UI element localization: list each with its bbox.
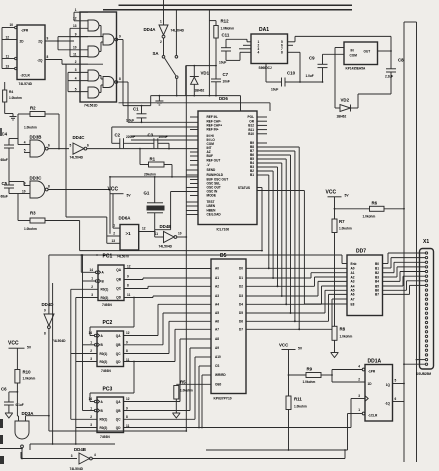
resistor R2 (18, 106, 60, 150)
svg-text:BUF: BUF (207, 154, 214, 158)
svg-text:R0(1): R0(1) (101, 288, 109, 292)
svg-text:9: 9 (47, 37, 49, 41)
AND gate DD5.4 (88, 87, 99, 98)
wire bottom rail to DD4B (21, 452, 77, 459)
svg-text:QC: QC (116, 352, 121, 356)
svg-text:QA: QA (116, 334, 121, 338)
svg-text:-2PR: -2PR (21, 29, 29, 33)
wire DD3A right input feedback (26, 415, 49, 417)
svg-text:REF IN-: REF IN- (207, 115, 218, 119)
svg-text:R6: R6 (372, 201, 378, 206)
svg-text:A2: A2 (215, 285, 219, 289)
svg-text:12: 12 (73, 17, 77, 21)
svg-text:QC: QC (116, 418, 121, 422)
wire ICL data fan B7 to D6 (257, 151, 296, 322)
svg-text:8: 8 (47, 55, 49, 59)
wire D5 data D6 to DD7 (246, 294, 347, 322)
svg-text:74L504D: 74L504D (159, 245, 173, 249)
svg-text:8: 8 (127, 284, 129, 288)
svg-text:KP637PY10: KP637PY10 (214, 397, 232, 401)
capacitor C11 (219, 33, 251, 65)
svg-text:-1Q: -1Q (385, 402, 391, 406)
svg-text:D1: D1 (239, 276, 243, 280)
svg-text:4: 4 (24, 140, 26, 144)
wire PC1 QD to D5 A3 and cascade (90, 296, 211, 336)
svg-text:9: 9 (75, 32, 77, 36)
svg-text:R10: R10 (23, 370, 32, 375)
svg-text:DD3C: DD3C (30, 176, 43, 181)
svg-text:R4: R4 (9, 90, 13, 94)
inverter DD4C (70, 135, 90, 160)
svg-text:D4: D4 (239, 303, 243, 307)
power VCC bottom left (8, 341, 32, 370)
inverter DD4E (155, 224, 188, 249)
wire gate input stubs with pin numbers (62, 8, 103, 92)
svg-text:COM: COM (350, 54, 358, 58)
svg-text:B1: B1 (250, 173, 254, 177)
svg-text:4: 4 (75, 76, 77, 80)
svg-text:1.0kohm: 1.0kohm (340, 335, 353, 339)
svg-text:1: 1 (160, 20, 162, 24)
power VCC right (326, 190, 350, 220)
svg-text:SEND: SEND (207, 168, 216, 172)
svg-text:A9: A9 (215, 346, 219, 350)
svg-text:1: 1 (90, 406, 92, 410)
svg-text:C11: C11 (222, 33, 230, 38)
svg-text:QC: QC (116, 287, 121, 291)
svg-text:PC2: PC2 (103, 320, 113, 326)
svg-text:C9: C9 (309, 56, 315, 61)
wire IN LO (131, 139, 198, 141)
svg-text:3: 3 (75, 68, 77, 72)
svg-text:R1: R1 (150, 157, 156, 162)
svg-text:B7: B7 (375, 293, 379, 297)
svg-text:C2: C2 (115, 133, 121, 138)
svg-text:8: 8 (119, 77, 121, 81)
inverter DD4D (42, 255, 67, 431)
svg-text:A0: A0 (351, 266, 355, 270)
resistor R11 (286, 396, 307, 451)
svg-text:10: 10 (10, 23, 14, 27)
inverter DD4A (144, 0, 185, 44)
resistor R8 (332, 326, 352, 352)
resistor R3 (18, 194, 80, 251)
svg-text:11: 11 (155, 232, 159, 236)
svg-text:R8: R8 (340, 327, 346, 332)
svg-text:D0: D0 (239, 267, 243, 271)
wire PC1 QB to D5 A1 (124, 278, 211, 280)
wire gate output 8 (118, 77, 128, 122)
svg-text:C4: C4 (2, 132, 8, 137)
wire D5 data D5 to DD7 (246, 290, 347, 314)
wire rail 255 to DD7 enable (49, 254, 347, 263)
svg-text:A0: A0 (215, 267, 219, 271)
wire bottom rail R11 (206, 414, 362, 451)
svg-text:4: 4 (94, 453, 96, 457)
svg-text:11: 11 (73, 52, 77, 56)
wire DD3A output left branch (0, 448, 23, 450)
svg-text:R11: R11 (294, 397, 302, 402)
svg-text:C10: C10 (287, 71, 296, 76)
wire PC2 QB to D5 A5 (124, 313, 212, 345)
switch SA (153, 10, 179, 96)
svg-text:1.0kohm: 1.0kohm (294, 405, 307, 409)
svg-text:DD4C: DD4C (73, 135, 86, 140)
wire D5 CS (198, 366, 211, 428)
svg-text:74L561D: 74L561D (84, 104, 98, 108)
svg-text:11: 11 (127, 293, 131, 297)
svg-text:A5: A5 (215, 311, 219, 315)
wire mid bus DD6 supply (151, 95, 241, 111)
svg-text:C1: C1 (133, 107, 139, 112)
svg-text:E8: E8 (351, 302, 355, 306)
resistor R9 (289, 367, 333, 385)
svg-text:3: 3 (90, 423, 92, 427)
svg-text:D2: D2 (239, 285, 243, 289)
flip-flop DD2 74LS74 (6, 23, 49, 86)
capacitor C9 (306, 54, 345, 83)
svg-text:DSUB25M: DSUB25M (416, 372, 431, 376)
svg-text:DA1: DA1 (259, 27, 269, 33)
svg-text:C6: C6 (1, 387, 7, 392)
capacitor C7 (211, 66, 230, 96)
svg-text:A6: A6 (351, 293, 355, 297)
svg-text:-1PR: -1PR (368, 370, 376, 374)
svg-text:DD1A: DD1A (368, 359, 382, 365)
svg-text:1Q: 1Q (386, 383, 391, 387)
svg-text:C7: C7 (223, 72, 229, 77)
svg-text:PC3: PC3 (103, 387, 113, 393)
svg-text:D6: D6 (239, 320, 243, 324)
svg-text:1.0kohm: 1.0kohm (24, 126, 37, 130)
svg-text:74L504D: 74L504D (70, 156, 84, 160)
OR gate DD5.6 (103, 77, 118, 88)
svg-text:R0(2): R0(2) (101, 296, 109, 300)
svg-text:C8: C8 (398, 58, 404, 63)
svg-text:D7: D7 (239, 328, 243, 332)
wire DD7 B1 to X1 (383, 258, 426, 268)
wire D5 data D0 to DD7 (246, 267, 347, 269)
svg-text:8: 8 (281, 51, 283, 55)
wire RUN rail (110, 176, 198, 178)
svg-text:A7: A7 (351, 297, 355, 301)
voltage regulator DA2 KP1435EH5A (344, 42, 378, 71)
svg-text:2: 2 (113, 232, 115, 236)
svg-text:A1: A1 (215, 276, 219, 280)
svg-text:QB: QB (116, 277, 121, 281)
svg-text:5: 5 (75, 87, 77, 91)
svg-text:8: 8 (48, 185, 50, 189)
ADC chip DD6 ICL7106 (198, 111, 257, 232)
svg-text:8: 8 (126, 349, 128, 353)
wire PC3 QD long rail to DD1A clock (124, 399, 366, 428)
svg-text:1: 1 (358, 408, 360, 412)
wire regulator input (335, 48, 344, 109)
OR gate DD5.5 (103, 34, 118, 45)
wire DD7 B7 to X1 (383, 285, 426, 294)
power VCC bottom right (279, 343, 303, 397)
resistor R6 (335, 201, 405, 219)
op-amp DA1 (251, 27, 288, 70)
svg-text:9: 9 (119, 35, 121, 39)
svg-text:12: 12 (127, 265, 131, 269)
ground below R4 (10, 114, 17, 121)
svg-text:1BH62: 1BH62 (337, 115, 347, 119)
scan mark left edge 1 (0, 128, 2, 136)
svg-text:R7: R7 (339, 219, 345, 224)
svg-text:2: 2 (90, 349, 92, 353)
wire DA1 pin5 to regulator (288, 36, 392, 41)
svg-text:DD7: DD7 (356, 249, 366, 255)
ground on mid bus (155, 96, 163, 105)
svg-text:OE0: OE0 (215, 383, 222, 387)
svg-text:D3: D3 (239, 294, 243, 298)
svg-text:ICL7106: ICL7106 (217, 228, 230, 232)
svg-text:74L504D: 74L504D (171, 29, 185, 33)
svg-text:DD4B: DD4B (74, 447, 86, 452)
wire left spare vertical (52, 283, 54, 444)
wire ICL data fan B6 to D5 (257, 155, 291, 314)
inverter DD4B (70, 447, 97, 471)
svg-text:QB: QB (116, 409, 121, 413)
svg-text:PC1: PC1 (103, 254, 113, 260)
svg-text:8: 8 (44, 332, 46, 336)
svg-text:QD: QD (116, 426, 121, 430)
svg-text:74L504D: 74L504D (70, 467, 84, 471)
svg-text:13: 13 (112, 239, 116, 243)
svg-text:MODE: MODE (207, 194, 216, 198)
counter PC2 7493 (89, 320, 130, 373)
wire gate output 9 (118, 35, 123, 106)
svg-text:-2Q: -2Q (37, 59, 43, 63)
wire D5 data D7 to DD7 (246, 299, 347, 330)
capacitor C8 (385, 58, 404, 95)
counter PC3 7493 (89, 387, 130, 440)
wire ICL to DD7 E8 (257, 191, 347, 305)
wire PC1 QA to D5 A0 (124, 268, 211, 270)
svg-text:STATUS: STATUS (238, 186, 250, 190)
svg-text:R0(2): R0(2) (100, 360, 108, 364)
svg-text:1.0kohm: 1.0kohm (339, 227, 352, 231)
svg-text:1.0kohm: 1.0kohm (363, 215, 376, 219)
wire IN HI (131, 135, 198, 137)
svg-text:6: 6 (395, 397, 397, 401)
svg-text:B10: B10 (248, 132, 254, 136)
wire X1 lower stubs (403, 359, 425, 365)
svg-text:1.0kohm: 1.0kohm (9, 96, 22, 100)
svg-text:QA: QA (116, 400, 121, 404)
svg-text:DD3B: DD3B (30, 135, 42, 140)
wire DA1 pin6 stub (288, 44, 294, 46)
scan mark left edge 3 (0, 435, 3, 444)
svg-text:1.0kohm: 1.0kohm (23, 377, 36, 381)
svg-text:REF OUT: REF OUT (207, 159, 221, 163)
wire D5 WR (201, 375, 211, 428)
svg-text:1.0kohm: 1.0kohm (180, 389, 193, 393)
wire right rail B (416, 22, 418, 462)
svg-text:10: 10 (73, 46, 77, 50)
svg-text:A8: A8 (215, 337, 219, 341)
svg-text:VCC: VCC (8, 341, 19, 347)
wire DD7 B3 to X1 (383, 267, 426, 277)
capacitor C6 (1, 387, 24, 414)
svg-text:R5: R5 (180, 380, 186, 385)
svg-text:WR/RD: WR/RD (215, 373, 226, 377)
ground below R5 (172, 413, 180, 418)
svg-text:13: 13 (73, 24, 77, 28)
wire PC2 input stubs (71, 333, 100, 361)
svg-text:2: 2 (90, 415, 92, 419)
svg-text:A3: A3 (215, 294, 219, 298)
resistor R5 (174, 380, 211, 414)
wire DA1 pin3 stub (239, 48, 251, 50)
wire REF CAP rail 1 (128, 121, 198, 123)
svg-text:10uF: 10uF (219, 61, 226, 65)
svg-text:12: 12 (142, 227, 146, 231)
svg-text:220nF: 220nF (126, 135, 135, 139)
svg-text:74L5070: 74L5070 (117, 255, 130, 259)
svg-text:9: 9 (126, 406, 128, 410)
wire DA1 pin8 to C10 rail (288, 52, 301, 83)
capacitor C3 (148, 133, 170, 150)
wire long vertical feedback (185, 66, 187, 431)
svg-text:2.2uF: 2.2uF (385, 75, 393, 79)
wire lower bus (119, 103, 271, 111)
wire DD1A notQ output (393, 401, 405, 403)
svg-text:3: 3 (91, 293, 93, 297)
wire DD3B out to DD4C (48, 148, 69, 150)
wire ICL data fan B2 to D1 (257, 171, 274, 279)
svg-text:R0(1): R0(1) (100, 418, 108, 422)
connector X1 pins (425, 252, 427, 366)
wire STATUS (257, 188, 263, 252)
wire PC1 input stubs (71, 255, 101, 444)
svg-text:X1: X1 (423, 239, 429, 245)
svg-text:R12: R12 (221, 19, 230, 24)
svg-text:3: 3 (358, 394, 360, 398)
wire crystal to OSC IN (155, 192, 198, 230)
svg-text:VD2: VD2 (341, 98, 350, 103)
svg-text:RUN/HOLD: RUN/HOLD (207, 173, 224, 177)
gate block DD5 74L561D (80, 12, 117, 102)
svg-text:14: 14 (90, 268, 94, 272)
svg-text:7493N: 7493N (102, 303, 112, 307)
AND gate DD5.2 (88, 46, 99, 57)
memory chip D5 KP637PY10 (211, 253, 246, 401)
crystal G1 (144, 176, 165, 230)
svg-text:7493N: 7493N (100, 435, 110, 439)
svg-text:R9: R9 (307, 367, 313, 372)
wire gate internal links (99, 26, 103, 93)
svg-text:10: 10 (178, 232, 182, 236)
flip-flop DD1A (358, 359, 396, 422)
svg-text:C3: C3 (148, 133, 154, 138)
svg-text:VD1: VD1 (201, 71, 210, 76)
wire regulator output node (378, 36, 392, 68)
svg-text:1: 1 (75, 8, 77, 12)
wire ICL data fan B5 to D4 (257, 159, 287, 305)
svg-text:R2: R2 (30, 106, 36, 111)
NAND gate DD3C (9, 176, 50, 199)
wire D5 data D2 to DD7 (246, 277, 347, 287)
svg-text:7493N: 7493N (101, 369, 111, 373)
svg-text:>1: >1 (126, 231, 132, 236)
svg-text:1.0kohm: 1.0kohm (24, 227, 37, 231)
svg-text:12: 12 (6, 36, 10, 40)
svg-text:SA: SA (153, 51, 160, 56)
svg-text:0.1uF: 0.1uF (16, 403, 24, 407)
svg-text:14: 14 (89, 397, 93, 401)
svg-text:OUT: OUT (364, 50, 371, 54)
capacitor C1 (123, 96, 151, 124)
wire D5 data D4 to DD7 (246, 286, 347, 305)
svg-text:5: 5 (395, 379, 397, 383)
wire REF CAP rail 2 (112, 126, 198, 128)
wire PC3 input stubs (71, 399, 100, 427)
svg-text:A4: A4 (215, 303, 219, 307)
svg-text:A6: A6 (215, 320, 219, 324)
wire DD3C output (48, 176, 111, 234)
svg-text:4: 4 (358, 365, 360, 369)
svg-text:LBEN: LBEN (207, 204, 216, 208)
svg-text:G1: G1 (144, 191, 150, 196)
wire PC3 QA to D5 A8 (124, 339, 212, 402)
wire right rail A (403, 22, 405, 462)
wire D5 data D1 to DD7 (246, 273, 347, 279)
wire DD2 input stubs (2, 28, 17, 69)
power VCC mid (108, 187, 132, 229)
svg-text:KP1435EH5A: KP1435EH5A (346, 67, 366, 71)
svg-text:QD: QD (116, 360, 121, 364)
svg-text:10: 10 (22, 189, 26, 193)
svg-text:9: 9 (126, 340, 128, 344)
svg-text:9: 9 (24, 181, 26, 185)
wire ICL data fan B8 to D7 (257, 147, 300, 330)
wire regulator bottom rail (358, 94, 391, 108)
junction CS WR rail dots (185, 430, 187, 432)
wire PC3 QB to D5 A9 (124, 348, 212, 411)
svg-text:A3: A3 (351, 280, 355, 284)
svg-text:2Q: 2Q (38, 40, 43, 44)
wire DD7 B4 to X1 (383, 272, 426, 282)
svg-text:VCC: VCC (326, 190, 337, 196)
svg-text:VCC: VCC (108, 187, 119, 193)
ground below C6 (5, 413, 13, 418)
svg-text:74L574D: 74L574D (19, 82, 33, 86)
svg-text:74L504D: 74L504D (52, 339, 66, 343)
wire DD2 2Q output net (45, 37, 88, 50)
wire right rail top link (404, 21, 417, 23)
AND gate DD5.1 (88, 20, 99, 31)
svg-text:68uF: 68uF (1, 195, 8, 199)
svg-text:R0(2): R0(2) (100, 426, 108, 430)
svg-text:5: 5 (70, 144, 72, 148)
svg-text:B3: B3 (375, 275, 379, 279)
wire reset rail (30, 443, 115, 450)
wire PC3 QC to D5 A10 (124, 357, 212, 419)
svg-text:1: 1 (113, 224, 115, 228)
svg-text:-1CLR: -1CLR (368, 414, 378, 418)
svg-text:QB: QB (116, 343, 121, 347)
svg-text:1: 1 (91, 277, 93, 281)
wire DD7 B6 to X1 (383, 281, 426, 291)
wire DA1 pin2 stub (243, 44, 251, 46)
counter PC1 7493 (90, 254, 131, 308)
svg-text:4: 4 (258, 51, 260, 55)
svg-text:REF IN+: REF IN+ (207, 128, 219, 132)
svg-text:10uF: 10uF (271, 88, 278, 92)
svg-text:A7: A7 (215, 328, 219, 332)
